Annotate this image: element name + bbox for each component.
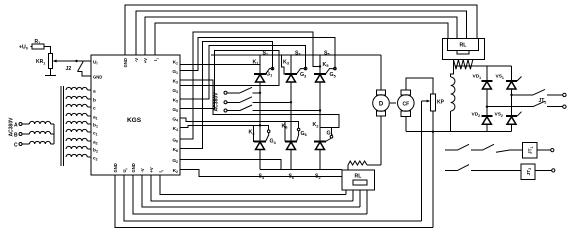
wire	[259, 82, 261, 142]
wire	[347, 165, 349, 170]
svg-text:J2: J2	[66, 66, 72, 72]
terminal phase A	[224, 91, 227, 94]
wire	[49, 68, 51, 75]
primary winding C	[22, 143, 29, 145]
svg-text:S3: S3	[295, 50, 301, 56]
svg-text:RL: RL	[355, 173, 363, 179]
wire motor return	[367, 164, 381, 166]
gate hook S4	[266, 133, 269, 142]
svg-text:B: B	[14, 132, 18, 138]
wire +V bottom loop	[151, 175, 353, 201]
thyristor S6	[285, 140, 297, 142]
svg-text:c2: c2	[93, 156, 98, 161]
svg-text:S1: S1	[263, 50, 269, 56]
svg-text:K6: K6	[173, 147, 178, 153]
contact JT2 upper	[512, 94, 533, 96]
transformer RL	[443, 38, 485, 59]
svg-text:K2: K2	[173, 168, 178, 174]
svg-text:Uf: Uf	[122, 168, 128, 172]
thyristor S1	[254, 73, 266, 75]
thyristor S5	[314, 73, 326, 75]
motor D	[376, 90, 385, 95]
wire -V bottom loop	[142, 175, 360, 207]
svg-text:K1: K1	[253, 59, 259, 65]
svg-text:JT1: JT1	[528, 146, 534, 154]
wire	[44, 47, 50, 54]
svg-text:G1: G1	[172, 69, 178, 75]
svg-text:G6: G6	[301, 131, 307, 137]
wire	[319, 82, 321, 142]
svg-text:GND: GND	[123, 58, 128, 67]
thyristor S2	[314, 140, 326, 142]
wire field bus	[406, 131, 512, 133]
resistor R1	[32, 44, 44, 49]
svg-text:b2: b2	[93, 147, 98, 153]
wire KP bottom feedback	[432, 111, 434, 228]
contact phase C	[227, 110, 240, 112]
wire	[31, 46, 33, 48]
svg-text:VS2: VS2	[495, 112, 503, 118]
svg-text:A: A	[14, 122, 18, 128]
terminal phase B	[224, 101, 227, 104]
svg-text:K5: K5	[173, 97, 178, 103]
svg-text:RL: RL	[460, 42, 468, 48]
current module RL	[342, 170, 375, 190]
svg-text:VS1: VS1	[496, 74, 504, 80]
wire	[451, 60, 454, 77]
secondary winding c2	[66, 154, 87, 157]
svg-text:G3: G3	[172, 88, 178, 94]
wire leg S5	[319, 55, 321, 74]
terminal	[563, 93, 566, 96]
wire K3 pin to K2 feed	[180, 80, 339, 128]
contact phase A	[227, 92, 240, 94]
svg-text:a: a	[93, 89, 96, 94]
IC KGS trigger module	[91, 55, 180, 175]
thyristor S4	[254, 140, 266, 142]
svg-text:K4: K4	[173, 126, 178, 132]
secondary winding a	[66, 87, 87, 90]
relay JT2	[521, 164, 535, 180]
svg-text:a1: a1	[93, 115, 98, 120]
wire CF negative	[405, 116, 407, 131]
svg-text:VD2: VD2	[472, 112, 481, 118]
svg-text:K3: K3	[283, 59, 289, 65]
svg-text:KR1: KR1	[36, 59, 45, 65]
wire If bottom loop	[160, 175, 346, 194]
wire GND bottom loop	[115, 175, 433, 228]
wire G2 gate drop	[331, 128, 333, 136]
contact row JT1	[445, 149, 458, 151]
terminal phase C	[224, 109, 227, 112]
svg-text:G5: G5	[330, 72, 336, 78]
svg-text:S5: S5	[324, 50, 330, 56]
secondary winding a2	[66, 138, 87, 141]
wire positive bus	[211, 54, 381, 56]
svg-text:b: b	[93, 97, 96, 103]
wire	[319, 150, 321, 170]
svg-text:G2: G2	[172, 158, 178, 164]
svg-text:GND: GND	[113, 163, 118, 172]
secondary winding a1	[66, 113, 87, 116]
svg-text:b1: b1	[93, 122, 98, 128]
svg-text:R1: R1	[35, 39, 41, 45]
svg-text:JT2: JT2	[526, 168, 532, 176]
wire	[345, 190, 347, 194]
switch J2	[75, 60, 77, 62]
svg-text:G4: G4	[172, 116, 178, 122]
secondary winding b1	[66, 121, 87, 124]
thyristor S3	[285, 73, 297, 75]
wire G1 riser to G5 gate	[180, 37, 335, 70]
secondary winding b2	[66, 146, 87, 149]
potentiometer KR1	[48, 53, 52, 68]
wire	[511, 66, 513, 81]
svg-text:K3: K3	[173, 78, 178, 84]
svg-text:c: c	[93, 106, 96, 111]
svg-text:GND: GND	[131, 163, 136, 172]
wire I1 top to RL	[155, 23, 448, 55]
terminal	[563, 105, 566, 108]
secondary winding c1	[66, 129, 87, 132]
wire CF to KP	[406, 78, 433, 94]
svg-text:c1: c1	[93, 131, 98, 136]
wire negative bus	[260, 169, 342, 171]
svg-text:K6: K6	[282, 123, 288, 129]
svg-text:+U0: +U0	[19, 44, 28, 50]
svg-text:G1: G1	[266, 71, 272, 77]
svg-text:a2: a2	[93, 140, 98, 145]
reactor winding	[348, 161, 367, 165]
svg-text:G3: G3	[300, 72, 306, 78]
wire K6 riser to G1 gate	[180, 42, 273, 149]
wire Uf bottom loop	[124, 175, 422, 221]
wire	[290, 150, 292, 170]
primary star point	[53, 124, 55, 144]
svg-text:Ur: Ur	[93, 59, 98, 65]
svg-text:GND: GND	[93, 75, 102, 80]
wire Ur with wiper arrow	[56, 60, 92, 62]
svg-text:G4: G4	[270, 139, 277, 145]
svg-text:KP: KP	[437, 100, 445, 106]
svg-text:KGS: KGS	[127, 117, 142, 124]
svg-text:CF: CF	[402, 101, 409, 107]
wire +V top to RL	[145, 17, 457, 55]
wire K4 pin to S4 and G4	[180, 125, 269, 129]
tachogenerator CF	[401, 90, 410, 95]
transformer core	[60, 86, 62, 166]
svg-text:-V: -V	[140, 168, 145, 172]
wire KP wiper feedback	[422, 100, 428, 102]
wire	[486, 66, 488, 81]
filter inductor	[451, 77, 455, 111]
wire GND top to RL	[125, 5, 477, 55]
potentiometer KP	[431, 94, 436, 111]
svg-text:+V: +V	[143, 58, 148, 63]
secondary winding b	[66, 96, 87, 99]
svg-text:I1: I1	[153, 58, 159, 61]
gate hook S6	[297, 131, 299, 142]
wire K5 riser to G3 gate	[180, 46, 306, 99]
wire G2 pin route	[180, 160, 281, 170]
wire K2 pin route	[180, 170, 342, 177]
svg-text:G6: G6	[172, 137, 178, 143]
wire K3 cathode tap	[281, 55, 285, 74]
svg-text:S6: S6	[289, 174, 295, 180]
primary winding A	[22, 123, 29, 125]
ground	[45, 75, 56, 77]
svg-text:S2: S2	[315, 174, 321, 180]
terminal	[552, 169, 555, 172]
svg-text:C: C	[14, 142, 18, 148]
wire	[455, 65, 512, 67]
wire	[259, 150, 261, 170]
svg-text:If: If	[158, 170, 164, 172]
svg-text:G5: G5	[172, 107, 178, 113]
svg-text:-V: -V	[134, 58, 139, 62]
wire leg S3	[290, 55, 292, 74]
svg-text:K2: K2	[313, 122, 319, 128]
svg-text:K4: K4	[249, 130, 256, 136]
secondary winding c	[66, 104, 87, 107]
contact JT2 lower	[487, 106, 533, 108]
gate hook S2	[326, 138, 332, 142]
wire -V top to RL	[136, 11, 467, 55]
svg-text:D: D	[379, 101, 384, 107]
terminal	[551, 149, 554, 152]
svg-text:AC380V: AC380V	[214, 92, 220, 112]
wire GND2 bottom loop	[133, 175, 367, 214]
svg-text:S4: S4	[259, 174, 265, 180]
svg-text:K5: K5	[323, 62, 329, 68]
secondary winding RL	[454, 60, 473, 70]
svg-text:K1: K1	[173, 59, 178, 65]
svg-text:VD1: VD1	[473, 74, 482, 80]
wire K1 to S1 cathode	[180, 64, 260, 66]
wire leg S1	[259, 55, 261, 74]
contact row JT2b	[445, 169, 458, 171]
contact phase B	[227, 101, 240, 103]
relay JT1	[523, 142, 537, 158]
shaft coupling	[390, 102, 396, 104]
wire motor negative	[380, 116, 382, 165]
wire	[450, 111, 452, 132]
wire	[290, 82, 292, 142]
wire G5 riser to G3 tap	[180, 50, 279, 108]
primary winding B	[22, 133, 29, 135]
wire bus to motor	[380, 55, 382, 90]
wire G4 pin to S6/G6	[180, 118, 285, 142]
wire G6 riser to K5 feed	[180, 32, 320, 139]
svg-text:+V: +V	[149, 167, 154, 172]
